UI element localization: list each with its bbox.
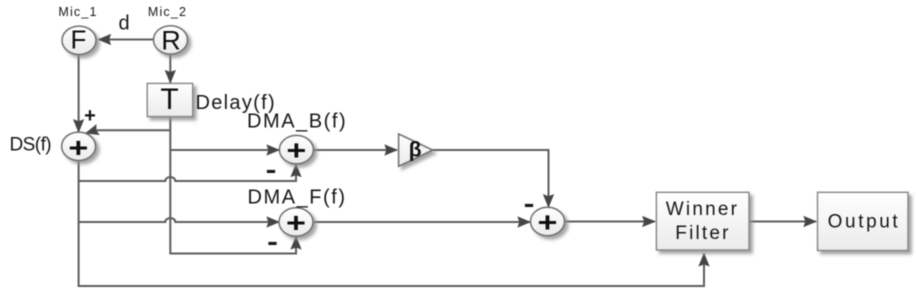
svg-text:Output: Output (828, 212, 901, 233)
svg-text:d: d (119, 13, 130, 35)
svg-text:F: F (71, 24, 87, 54)
svg-text:T: T (160, 83, 178, 116)
svg-text:Winner: Winner (666, 199, 739, 220)
svg-text:+: + (68, 132, 88, 163)
svg-text:Mic_1: Mic_1 (58, 5, 97, 19)
svg-text:+: + (286, 207, 306, 238)
svg-text:R: R (161, 26, 181, 56)
svg-text:-: - (524, 189, 535, 218)
svg-text:+: + (538, 206, 558, 237)
svg-text:+: + (286, 134, 306, 165)
svg-text:DS(f): DS(f) (10, 135, 52, 156)
svg-text:Filter: Filter (675, 223, 730, 244)
svg-text:Mic_2: Mic_2 (148, 5, 187, 19)
svg-text:DMA_B(f): DMA_B(f) (247, 111, 347, 133)
svg-text:-: - (266, 155, 277, 184)
svg-text:-: - (267, 227, 278, 256)
svg-text:DMA_F(f): DMA_F(f) (248, 187, 347, 209)
svg-text:β: β (409, 139, 422, 162)
svg-text:+: + (84, 105, 96, 127)
